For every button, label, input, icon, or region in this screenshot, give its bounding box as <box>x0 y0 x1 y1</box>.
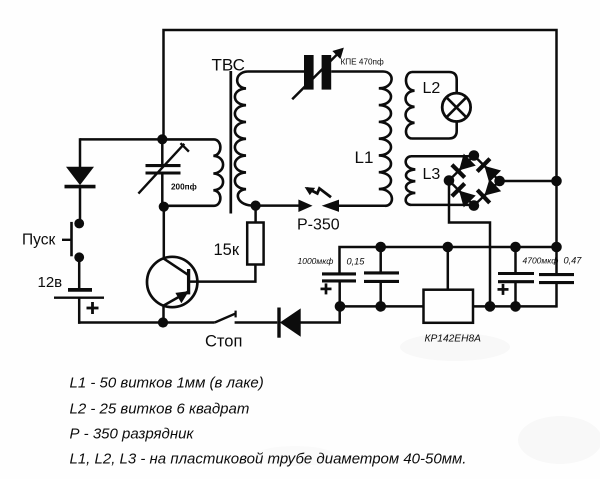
VT1 collector lead <box>164 258 190 275</box>
200пф adjust diagonal <box>138 144 184 194</box>
wire C2 top <box>379 247 382 273</box>
node minus rail / C3 <box>510 242 521 253</box>
wire Пуск to battery <box>78 257 81 288</box>
bridge diode VD4 (right to top) cathode bar <box>477 159 490 172</box>
bridge edge bottom-right <box>474 181 500 206</box>
battery plus sign horizontal <box>87 307 99 310</box>
wire into diode VD1 <box>79 138 82 167</box>
bridge node plus left <box>444 175 455 186</box>
svg-text:0,15: 0,15 <box>347 257 366 267</box>
svg-text:200пф: 200пф <box>171 183 197 192</box>
bridge edge top-left <box>449 156 474 181</box>
bridge node AC top <box>469 150 480 161</box>
svg-text:4700мкф: 4700мкф <box>523 256 559 266</box>
node right riser / bridge <box>551 176 562 187</box>
capacitor C2 bottom plate <box>364 280 399 283</box>
transformer TV1 core <box>229 71 232 214</box>
bridge diode VD6 (right to bottom) cathode bar <box>477 190 489 203</box>
bridge diode VD3 (top to left) cathode bar <box>452 165 465 178</box>
diode VD1 triangle <box>67 167 93 184</box>
C3 plus horizontal <box>498 288 509 291</box>
svg-text:L1 - 50 витков 1мм (в лаке): L1 - 50 витков 1мм (в лаке) <box>70 375 264 392</box>
svg-text:L1, L2, L3 - на пластиковой тр: L1, L2, L3 - на пластиковой трубе диамет… <box>70 451 467 468</box>
wire battery down <box>78 298 81 324</box>
C3 plus vertical <box>502 284 505 295</box>
Р-350 spark arrowhead <box>306 188 315 195</box>
node plus rail / C1 <box>335 301 346 312</box>
wire node to R1 <box>254 206 257 223</box>
svg-text:КР142ЕН8А: КР142ЕН8А <box>425 334 482 345</box>
wire node to Р-350 <box>256 204 300 207</box>
Р-350 spark zigzag <box>307 188 331 197</box>
bridge diode VD5 (bottom to left) cathode bar <box>452 184 465 197</box>
capacitor C4 top plate <box>539 273 574 276</box>
transformer TV1 primary winding <box>162 139 223 205</box>
battery short plate <box>68 288 92 292</box>
svg-text:ТВС: ТВС <box>212 56 245 75</box>
coil L3 <box>406 156 416 205</box>
bridge diode VD4 (right to top) triangle <box>485 167 500 182</box>
wire R1 to base <box>189 265 255 282</box>
bridge diode VD6 (right to bottom) triangle <box>485 180 500 195</box>
КПЕ adjust arrow shaft <box>292 53 338 99</box>
node minus rail / right riser <box>551 242 562 253</box>
bridge edge top-right <box>474 156 500 182</box>
wire minus rail <box>340 247 557 274</box>
battery long plate <box>54 297 104 299</box>
Стоп contact tick <box>235 311 237 318</box>
bridge diode VD5 (bottom to left) triangle <box>460 191 475 206</box>
svg-text:Пуск: Пуск <box>22 232 55 249</box>
regulator DA1 КР142ЕН8А <box>424 290 474 323</box>
200пф bottom plate <box>146 171 181 174</box>
wire top-left horizontal <box>80 138 162 141</box>
wire bridge minus to right riser <box>500 180 557 183</box>
wire emitter down <box>162 306 165 323</box>
wire L3 top to bridge <box>411 155 474 158</box>
VT1 emitter lead <box>164 291 189 305</box>
C1 plus vertical <box>325 283 328 294</box>
svg-text:L3: L3 <box>423 166 441 183</box>
wire bottom rail to Стоп <box>78 321 215 324</box>
background smudges (decorative) <box>400 333 510 361</box>
bridge diode VD3 (top to left) triangle <box>460 155 475 170</box>
Р-350 left electrode <box>299 200 311 211</box>
wire outer loop (left riser, top rail, right riser) <box>164 30 557 247</box>
capacitor C3 top plate <box>498 272 534 275</box>
wire VD1 to Пуск <box>79 188 82 224</box>
coil L2 <box>406 72 415 139</box>
wire plus rail left <box>340 305 424 308</box>
diode VD2 triangle <box>281 309 301 336</box>
svg-text:15к: 15к <box>214 241 240 259</box>
200пф top plate <box>146 164 181 167</box>
wire КПЕ to L1 top <box>331 70 383 73</box>
Стоп switch arm <box>215 313 236 322</box>
svg-text:L1: L1 <box>355 148 374 167</box>
wire 200пф bottom <box>161 174 164 207</box>
node emitter/battery rail <box>158 317 168 327</box>
svg-text:Р - 350 разрядник: Р - 350 разрядник <box>70 426 195 443</box>
svg-text:Стоп: Стоп <box>205 333 242 351</box>
capacitor C1 bottom plate <box>322 279 356 282</box>
wire L2 top to lamp <box>412 72 457 93</box>
node plus rail / C3 <box>510 301 521 312</box>
Р-350 right electrode <box>323 200 338 211</box>
lamp X stroke 1 <box>446 97 466 117</box>
wire collector riser <box>163 207 166 259</box>
КПЕ 470пф variable capacitor plates <box>304 55 314 90</box>
node plus rail / C2 <box>375 301 386 312</box>
wire secondary top to КПЕ <box>248 70 305 73</box>
wire C1 bottom <box>338 281 341 307</box>
svg-text:0,47: 0,47 <box>564 256 583 266</box>
Пуск actuator stub <box>62 239 72 241</box>
bridge node AC bottom <box>469 200 480 211</box>
svg-text:1000мкф: 1000мкф <box>298 256 334 266</box>
wire C4 bottom <box>555 283 558 308</box>
node plus rail / bridge plus <box>485 301 496 312</box>
bridge edge bottom-left <box>449 181 474 206</box>
wire C3 top <box>514 247 517 274</box>
battery plus sign vertical <box>91 302 94 314</box>
wire Р-350 to L1 bottom <box>338 205 386 208</box>
C1 plus horizontal <box>321 288 332 291</box>
transistor VT1 circle <box>147 257 197 307</box>
Пуск actuator bar <box>70 222 73 256</box>
200пф adjust T-bar <box>181 143 189 151</box>
lamp HL1 <box>442 93 470 121</box>
node minus rail / C2 <box>375 242 386 253</box>
capacitor C1 top plate <box>322 272 356 275</box>
node bottom of 200пф <box>159 202 169 212</box>
svg-text:L2 - 25 витков 6 квадрат: L2 - 25 витков 6 квадрат <box>70 401 250 418</box>
node Пуск upper contact <box>74 219 84 229</box>
VT1 emitter arrow <box>176 292 188 303</box>
capacitor C2 top plate <box>364 271 399 274</box>
bridge node minus right <box>494 176 505 187</box>
diode VD1 cathode bar <box>65 185 96 189</box>
node top of 200пф <box>157 134 167 144</box>
КПЕ arrow head <box>333 48 343 58</box>
transformer TV1 secondary winding <box>235 72 252 206</box>
node secondary bottom / 15к <box>251 201 261 211</box>
node Пуск lower contact <box>74 252 84 262</box>
wire to 200пф top <box>161 139 164 164</box>
svg-text:Р-350: Р-350 <box>297 217 340 234</box>
coil L1 <box>379 72 392 206</box>
capacitor C4 bottom plate <box>539 281 574 284</box>
capacitor C3 bottom plate <box>498 280 534 283</box>
wire bridge plus to rail <box>449 181 490 307</box>
wire lamp to L2 bottom <box>412 122 457 139</box>
wire VD2 to plus rail <box>300 306 340 322</box>
lamp X stroke 2 <box>446 97 466 117</box>
VT1 base bar <box>187 269 190 294</box>
wire C4 top <box>555 247 558 275</box>
wire C3 bottom <box>514 282 517 307</box>
wire L3 bottom to bridge <box>411 204 474 207</box>
wire Стоп to VD2 <box>235 321 278 324</box>
svg-text:КПЕ 470пф: КПЕ 470пф <box>341 58 384 67</box>
resistor R1 15к <box>247 223 263 265</box>
wire plus rail right <box>473 305 557 308</box>
svg-text:L2: L2 <box>423 80 441 97</box>
svg-text:12в: 12в <box>38 274 63 291</box>
wire DA1 top pin <box>447 247 450 290</box>
node minus rail / DA1 <box>443 242 454 253</box>
wire C2 bottom <box>379 281 382 306</box>
diode VD2 cathode bar <box>277 308 280 338</box>
